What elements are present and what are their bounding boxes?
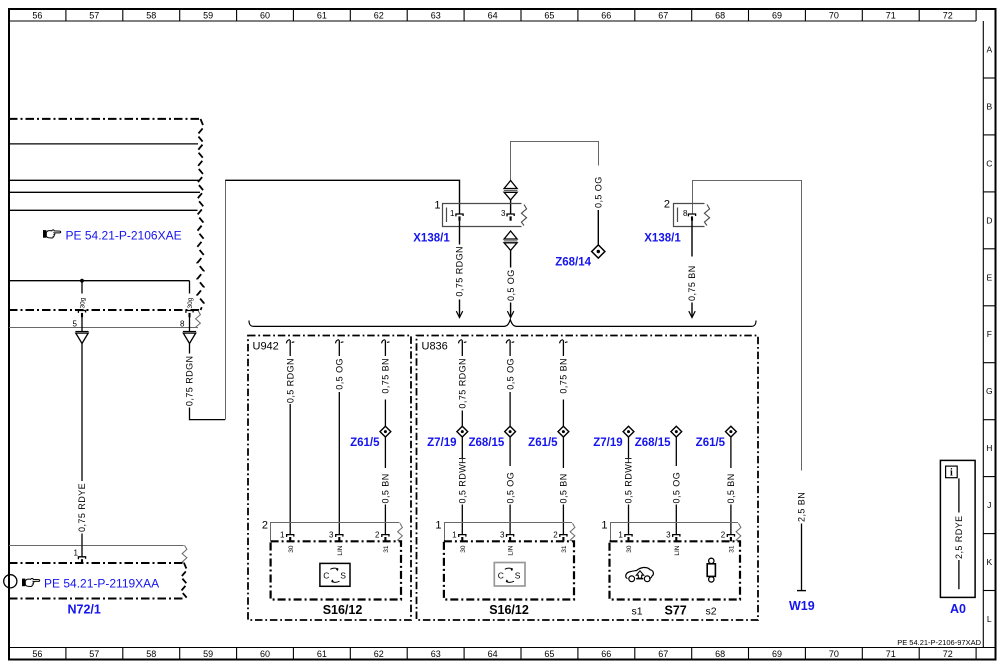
svg-text:U836: U836	[422, 341, 448, 353]
wire 1 upper segment	[461, 340, 463, 356]
N72/1 torn edge zigzag	[181, 563, 187, 599]
svg-text:56: 56	[32, 10, 42, 20]
svg-text:S: S	[515, 571, 521, 581]
S16/12 connector strip (gray)	[445, 523, 573, 541]
N72/1 pin 1 symbol	[78, 557, 85, 564]
svg-text:0,75 RDGN: 0,75 RDGN	[185, 356, 195, 407]
svg-text:X138/1: X138/1	[644, 233, 681, 245]
pin 2 symbol	[382, 535, 389, 542]
ruler numbers bottom	[32, 649, 952, 659]
svg-text:3: 3	[501, 209, 506, 218]
wire RDGN segment below arrow	[189, 344, 191, 354]
splice Z61/5 diamond	[558, 426, 569, 437]
fuse pin 8 symbol	[186, 311, 193, 318]
X138/1 left connector box	[443, 204, 522, 227]
svg-text:5: 5	[73, 319, 78, 328]
wire RDYE upper segment	[81, 344, 83, 482]
wire 4 bottom segment	[628, 505, 630, 535]
wire 1 lower segment	[289, 404, 291, 534]
wire 1 top sleeve	[286, 340, 294, 344]
svg-text:A0: A0	[950, 602, 966, 616]
svg-text:31: 31	[383, 545, 390, 553]
wire 2 mid segment	[509, 392, 511, 426]
wire into N72/1 pin	[81, 545, 83, 556]
svg-text:Z61/5: Z61/5	[350, 437, 380, 449]
legend wire lower segment	[958, 560, 960, 589]
svg-text:68: 68	[715, 10, 725, 20]
svg-text:0,5 OG: 0,5 OG	[506, 269, 516, 301]
svg-text:C: C	[498, 571, 504, 581]
strip torn edge	[736, 523, 741, 541]
svg-text:60: 60	[260, 10, 270, 20]
internal bus wire 4	[9, 209, 198, 211]
wire 2 top sleeve	[506, 340, 514, 344]
letter row separators and letters	[983, 45, 995, 625]
wire 2 upper segment	[338, 340, 340, 356]
strip torn edge	[398, 523, 403, 541]
svg-text:i: i	[950, 468, 953, 479]
svg-text:0,5 OG: 0,5 OG	[505, 472, 515, 504]
svg-text:X138/1: X138/1	[413, 233, 450, 245]
ruler numbers top	[32, 10, 952, 20]
svg-text:58: 58	[146, 10, 156, 20]
svg-text:C: C	[986, 158, 992, 168]
N72/1 connector strip line (gray)	[9, 545, 184, 547]
wire 3 top sleeve	[560, 340, 568, 344]
svg-text:U942: U942	[253, 341, 279, 353]
svg-text:Z61/5: Z61/5	[528, 437, 558, 449]
wire to arrow end	[459, 300, 461, 318]
svg-text:1: 1	[435, 520, 441, 532]
svg-text:1: 1	[434, 200, 440, 212]
svg-text:Z68/15: Z68/15	[635, 437, 671, 449]
svg-text:62: 62	[374, 649, 384, 659]
wire 3 mid segment	[562, 400, 564, 427]
svg-text:0,5 RDWH: 0,5 RDWH	[624, 457, 634, 504]
svg-text:64: 64	[488, 10, 498, 20]
wire 5 bottom segment	[675, 505, 677, 535]
S16/12 component box (dash-dot)	[271, 541, 401, 599]
fuse pin 5 symbol	[78, 311, 85, 318]
pin 2 symbol	[727, 535, 734, 542]
svg-text:LIN: LIN	[674, 545, 681, 555]
pin 3 symbol	[673, 535, 680, 542]
svg-text:H: H	[986, 443, 992, 453]
svg-text:1: 1	[452, 531, 457, 540]
svg-text:69: 69	[772, 649, 782, 659]
wire 6 below splice	[730, 437, 732, 468]
wire 2 lower segment	[338, 392, 340, 534]
pin 3 symbol	[507, 214, 514, 221]
svg-text:1: 1	[450, 209, 455, 218]
plug connection above pin 3	[504, 181, 518, 200]
svg-text:61: 61	[317, 10, 327, 20]
svg-text:66: 66	[601, 10, 611, 20]
hand icon 2	[22, 578, 40, 586]
harness brace	[249, 320, 756, 327]
svg-text:F: F	[987, 329, 992, 339]
legend wire upper segment	[958, 478, 960, 512]
svg-text:71: 71	[886, 649, 896, 659]
svg-text:2,5 BN: 2,5 BN	[797, 492, 807, 522]
svg-text:30: 30	[288, 545, 295, 553]
svg-text:2,5 RDYE: 2,5 RDYE	[954, 515, 964, 559]
motor symbol circle (cut by frame)	[4, 575, 17, 588]
wire 3 top sleeve	[382, 340, 390, 344]
internal bus wire 1	[9, 143, 198, 145]
splice Z61/5 diamond	[380, 426, 391, 437]
pin 1 symbol	[287, 535, 294, 542]
pin 1 symbol	[456, 214, 463, 221]
svg-text:Z7/19: Z7/19	[593, 437, 622, 449]
N72/1 box top border (dash-dot)	[9, 562, 183, 564]
wire 3 upper segment	[384, 340, 386, 356]
svg-text:Z68/15: Z68/15	[468, 437, 504, 449]
internal supply wire with junction	[9, 280, 190, 282]
svg-text:3: 3	[500, 531, 505, 540]
wire lower segment to W19	[801, 524, 803, 591]
svg-text:W19: W19	[789, 599, 815, 613]
wire 4 below splice	[628, 437, 630, 458]
svg-text:N72/1: N72/1	[68, 603, 101, 617]
svg-text:70: 70	[829, 10, 839, 20]
connector strip torn edge (gray)	[196, 311, 201, 328]
splice Z7/19 diamond	[457, 426, 468, 437]
svg-text:s1: s1	[632, 606, 643, 618]
svg-text:0,75 BN: 0,75 BN	[559, 358, 569, 394]
svg-text:0,5 BN: 0,5 BN	[381, 473, 391, 503]
svg-text:E: E	[986, 272, 992, 282]
wire 3 upper segment	[562, 340, 564, 356]
ground point end bar	[797, 590, 806, 592]
arrow end BN	[689, 311, 695, 317]
X138/1 right box torn edge	[704, 205, 709, 226]
A0 box	[940, 460, 975, 597]
S77 component box (dash-dot)	[610, 541, 741, 599]
svg-text:30g: 30g	[80, 297, 87, 308]
S77 group: wire 4 splice Z7/19	[623, 426, 634, 437]
wire 6 bottom segment	[730, 505, 732, 535]
svg-text:B: B	[986, 101, 992, 111]
wire 3 below splice	[562, 437, 564, 468]
wire 1 upper segment	[289, 340, 291, 356]
svg-text:0,5 OG: 0,5 OG	[594, 176, 604, 208]
strip torn edge	[570, 523, 575, 541]
svg-text:J: J	[987, 500, 991, 510]
svg-text:LIN: LIN	[337, 545, 344, 555]
wire 6 splice Z61/5	[726, 426, 737, 437]
svg-text:2: 2	[375, 531, 380, 540]
splice Z68/14 diamond	[592, 245, 605, 258]
svg-text:1: 1	[601, 520, 607, 532]
svg-text:65: 65	[544, 649, 554, 659]
svg-text:C: C	[323, 571, 329, 581]
wire RDGN feed to X138/1 pin 1	[225, 180, 459, 213]
svg-text:60: 60	[260, 649, 270, 659]
svg-text:31: 31	[729, 545, 736, 553]
svg-text:0,75 BN: 0,75 BN	[687, 265, 697, 301]
U942 box (dash-dot)	[248, 336, 411, 621]
svg-text:65: 65	[544, 10, 554, 20]
svg-text:8: 8	[683, 209, 688, 218]
svg-text:0,75 RDGN: 0,75 RDGN	[455, 246, 465, 297]
svg-text:2: 2	[262, 520, 268, 532]
svg-text:66: 66	[601, 649, 611, 659]
connector strip bottom line (gray)	[9, 327, 197, 329]
S16/12 component box (dash-dot)	[444, 541, 574, 599]
svg-text:PE 54.21-P-2119XAA: PE 54.21-P-2119XAA	[44, 577, 159, 591]
svg-text:3: 3	[666, 531, 671, 540]
wire below pin 1	[459, 221, 461, 245]
svg-text:0,5 BN: 0,5 BN	[559, 473, 569, 503]
internal bus wire 2	[9, 179, 200, 181]
X138/1 left box torn edge	[521, 205, 526, 226]
riser wire (gray) up to X138/1 feed	[225, 181, 227, 420]
wire 2 below splice	[509, 437, 511, 466]
wire 3 mid segment	[384, 400, 386, 427]
pin 1 symbol	[625, 535, 632, 542]
svg-text:58: 58	[146, 649, 156, 659]
pin 2 symbol	[560, 535, 567, 542]
svg-text:L: L	[987, 614, 992, 624]
svg-text:2: 2	[664, 199, 670, 211]
svg-text:59: 59	[203, 649, 213, 659]
svg-text:2: 2	[721, 531, 726, 540]
internal bus wire 3	[9, 191, 200, 193]
hand icon 1	[43, 230, 61, 238]
svg-text:0,5 OG: 0,5 OG	[505, 358, 515, 390]
wire below pin 8	[189, 317, 191, 332]
wire drop to fuse 5	[81, 281, 83, 294]
wire 2 top sleeve	[336, 340, 344, 344]
svg-text:72: 72	[943, 10, 953, 20]
svg-text:63: 63	[431, 649, 441, 659]
cigar lighter icon box (gray)	[494, 563, 525, 587]
svg-text:A: A	[986, 45, 992, 55]
wire 3 below splice	[384, 437, 386, 468]
lighter icon letters and arrows	[498, 568, 521, 582]
svg-text:0,75 BN: 0,75 BN	[381, 358, 391, 394]
svg-text:62: 62	[374, 10, 384, 20]
pin 1 symbol	[459, 535, 466, 542]
wire 2 bottom segment	[509, 505, 511, 535]
svg-text:PE 54.21-P-2106XAE: PE 54.21-P-2106XAE	[66, 229, 182, 243]
svg-text:30g: 30g	[187, 297, 194, 308]
svg-text:69: 69	[772, 10, 782, 20]
N72/1 box bottom border (dash-dot)	[9, 598, 183, 600]
wire below pin 8	[691, 221, 693, 257]
svg-text:57: 57	[89, 649, 99, 659]
svg-text:56: 56	[32, 649, 42, 659]
svg-text:1: 1	[280, 531, 285, 540]
direction arrow under fuse 5	[75, 332, 88, 344]
svg-text:8: 8	[180, 319, 185, 328]
wire 1 below splice	[461, 437, 463, 458]
svg-text:67: 67	[658, 649, 668, 659]
svg-text:1: 1	[74, 548, 79, 557]
S77 connector strip (gray)	[611, 523, 739, 541]
svg-text:30: 30	[460, 545, 467, 553]
festoon bulb icon	[707, 558, 715, 582]
wire below pin 5	[81, 317, 83, 332]
svg-text:S: S	[340, 571, 346, 581]
wire 1 bottom segment	[461, 505, 463, 535]
U836 box (dash-dot)	[417, 336, 759, 621]
letter column left line	[982, 21, 984, 648]
wire RDGN elbow to riser	[190, 408, 226, 420]
cigar lighter icon box	[320, 563, 350, 586]
control unit box bottom border (dash-dot)	[9, 309, 199, 311]
plug connection below pin 3	[504, 231, 518, 250]
X138/1 right connector: feed wire (gray)	[693, 181, 802, 471]
bottom ruler strip top line	[9, 647, 996, 649]
wire below plug connection pin 3	[510, 250, 512, 267]
svg-text:0,75 RDGN: 0,75 RDGN	[458, 358, 468, 409]
svg-text:0,75 RDYE: 0,75 RDYE	[77, 483, 87, 532]
svg-text:0,5 BN: 0,5 BN	[726, 473, 736, 503]
svg-text:67: 67	[658, 10, 668, 20]
wire 5 splice Z68/15	[671, 426, 682, 437]
svg-text:S16/12: S16/12	[489, 603, 529, 617]
wire drop to fuse 8	[189, 281, 191, 294]
svg-text:64: 64	[488, 649, 498, 659]
svg-text:S16/12: S16/12	[323, 603, 363, 617]
svg-text:1: 1	[618, 531, 623, 540]
arrow end OG	[507, 311, 513, 317]
svg-text:2: 2	[553, 531, 558, 540]
svg-text:S77: S77	[665, 604, 687, 618]
wire into pin 3	[510, 199, 512, 213]
X138/1 right connector box	[674, 204, 705, 227]
wire 2 upper segment	[509, 340, 511, 356]
svg-text:0,5 OG: 0,5 OG	[672, 472, 682, 504]
wire 3 bottom segment	[562, 505, 564, 535]
svg-text:3: 3	[329, 531, 334, 540]
direction arrow under fuse 8	[183, 332, 196, 344]
svg-text:0,5 RDGN: 0,5 RDGN	[285, 358, 295, 403]
svg-text:G: G	[986, 386, 993, 396]
N72/1 connector strip torn edge (gray)	[182, 545, 187, 562]
pin 3 symbol	[336, 535, 343, 542]
wire to arrow end	[510, 303, 512, 318]
wire 5 below splice	[675, 437, 677, 466]
splice Z68/15 diamond	[505, 426, 516, 437]
top ruler strip bottom line	[9, 20, 976, 22]
S16/12 connector strip (gray)	[271, 523, 400, 541]
svg-text:Z61/5: Z61/5	[696, 437, 726, 449]
svg-text:PE 54.21-P-2106-97XAD: PE 54.21-P-2106-97XAD	[897, 638, 981, 647]
wire to arrow end	[691, 303, 693, 318]
wire 1 top sleeve	[459, 340, 467, 344]
svg-text:30: 30	[626, 545, 633, 553]
pin 8 symbol	[688, 214, 695, 221]
wire 3 bottom segment	[384, 505, 386, 535]
svg-text:63: 63	[431, 10, 441, 20]
svg-text:Z68/14: Z68/14	[555, 257, 591, 269]
svg-text:59: 59	[203, 10, 213, 20]
svg-text:Z7/19: Z7/19	[427, 437, 456, 449]
control unit torn edge zigzag	[197, 119, 204, 310]
svg-text:71: 71	[886, 10, 896, 20]
svg-text:31: 31	[561, 545, 568, 553]
wire down to splice Z68/14	[597, 210, 599, 245]
svg-text:D: D	[986, 215, 992, 225]
wire 1 mid segment	[461, 411, 463, 427]
svg-text:70: 70	[829, 649, 839, 659]
car icon	[626, 567, 654, 581]
top OG bridge wire (gray)	[511, 142, 599, 181]
svg-text:57: 57	[89, 10, 99, 20]
wire RDYE lower segment	[81, 534, 83, 546]
lighter icon letters and arrows	[323, 568, 346, 582]
svg-text:LIN: LIN	[508, 545, 515, 555]
control unit box top border (dash-dot)	[9, 118, 199, 120]
svg-text:68: 68	[715, 649, 725, 659]
info icon	[946, 466, 958, 479]
svg-text:s2: s2	[706, 606, 717, 618]
pin 3 symbol	[507, 535, 514, 542]
junction dot	[80, 279, 84, 283]
svg-text:61: 61	[317, 649, 327, 659]
svg-text:K: K	[986, 557, 992, 567]
svg-text:0,5 RDWH: 0,5 RDWH	[458, 457, 468, 504]
svg-text:72: 72	[943, 649, 953, 659]
arrow end RDGN	[456, 311, 462, 317]
svg-text:0,5 OG: 0,5 OG	[335, 358, 345, 390]
